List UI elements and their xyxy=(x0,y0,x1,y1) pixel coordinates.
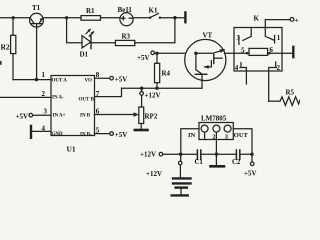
terminal +12V rail input xyxy=(159,152,163,156)
svg-text:VO: VO xyxy=(85,79,93,84)
svg-text:Be11: Be11 xyxy=(118,6,133,14)
svg-text:IN A-: IN A- xyxy=(52,96,64,101)
node T1 base junction xyxy=(35,78,38,81)
pin 8 wire xyxy=(95,77,110,79)
svg-text:VT: VT xyxy=(203,32,213,40)
node ground stem xyxy=(215,153,218,156)
resistor R3 xyxy=(115,40,134,45)
potentiometer RP2 xyxy=(139,107,144,129)
terminal +5V gate feeder xyxy=(151,51,155,55)
svg-text:R1: R1 xyxy=(86,7,95,15)
node R4 top xyxy=(155,52,158,55)
regulator pin circle 2 xyxy=(213,125,220,132)
terminal + top right xyxy=(290,18,294,22)
resistor R2 xyxy=(11,18,16,80)
svg-text:+12V: +12V xyxy=(140,151,156,159)
node R4 bottom xyxy=(155,87,158,90)
relay contact post 1 xyxy=(274,35,276,43)
relay K box xyxy=(234,28,282,72)
node coil left xyxy=(246,52,249,55)
svg-text:+5V: +5V xyxy=(16,112,29,120)
svg-text:2: 2 xyxy=(212,133,215,140)
relay contact post 3 xyxy=(238,36,240,44)
svg-text:+5V: +5V xyxy=(115,76,128,84)
wire R1 to bell xyxy=(101,17,121,19)
svg-text:IN: IN xyxy=(188,132,196,139)
regulator pin circle 1 xyxy=(201,125,208,132)
svg-text:K: K xyxy=(254,15,260,23)
resistor R5 zigzag xyxy=(280,97,300,106)
svg-text:RP2: RP2 xyxy=(145,112,158,120)
regulator pin1 stub xyxy=(204,132,206,139)
wire pin2 to R5 xyxy=(269,100,280,102)
svg-text:+5V: +5V xyxy=(115,131,128,139)
label V clipped left edge xyxy=(0,61,2,65)
svg-text:+5V: +5V xyxy=(244,170,257,178)
node D1 branch xyxy=(65,16,68,19)
wire branch down to R3 row xyxy=(135,18,175,43)
resistor R1 xyxy=(81,16,101,21)
wire R3 to D1 xyxy=(91,42,115,44)
svg-text:IN B-: IN B- xyxy=(80,133,92,138)
IC U1 box xyxy=(51,76,95,136)
wire coil to right terminal xyxy=(268,52,293,54)
svg-text:LM7805: LM7805 xyxy=(201,115,227,123)
wire VT collector to relay xyxy=(225,52,250,54)
svg-text:IN A+: IN A+ xyxy=(53,114,66,119)
wire +5V to VT gate xyxy=(155,52,185,54)
pin 5 wire xyxy=(95,133,110,135)
wire K coil tap to + terminal xyxy=(265,20,290,28)
transistor VT xyxy=(185,39,226,88)
svg-text:4: 4 xyxy=(235,64,239,72)
wire K1 to terminal xyxy=(161,17,184,19)
resistor R4 xyxy=(155,53,160,88)
svg-text:R3: R3 xyxy=(122,33,131,41)
relay contact pin2 xyxy=(269,62,277,101)
wire pin7 step to +12V rail xyxy=(95,88,122,96)
wire pin6 to RP2 wiper xyxy=(95,114,135,116)
terminal bar pin4 xyxy=(30,126,32,138)
svg-text:R2: R2 xyxy=(1,43,10,52)
svg-text:GND: GND xyxy=(52,132,64,137)
terminal bar right xyxy=(292,47,294,57)
regulator pin circle 3 xyxy=(224,125,231,132)
bell Bell xyxy=(120,13,133,26)
terminal +5V pin8 xyxy=(110,76,114,80)
pin 1 wire xyxy=(13,79,51,81)
svg-text:K1: K1 xyxy=(149,6,158,14)
wire T1 to node xyxy=(43,17,81,19)
terminal bar top xyxy=(184,12,186,22)
wire +12V rail xyxy=(122,87,203,89)
node junction R2 top xyxy=(12,16,15,19)
svg-text:R5: R5 xyxy=(286,89,295,97)
svg-text:OUT: OUT xyxy=(234,132,249,139)
node K1 branch xyxy=(173,16,176,19)
svg-text:+5V: +5V xyxy=(137,54,150,62)
regulator pin2 stub xyxy=(215,132,217,154)
terminal +5V bottom xyxy=(251,156,253,162)
ground below RP2 xyxy=(135,129,148,132)
svg-text:+12V: +12V xyxy=(145,92,161,100)
relay contact arm right from K xyxy=(265,28,273,41)
node coil right xyxy=(268,52,271,55)
pin 4 wire xyxy=(32,130,51,132)
transistor T1 xyxy=(30,13,44,79)
wire top rail left xyxy=(0,17,30,19)
node RP2/+12V stem xyxy=(140,87,143,90)
regulator LM7805 box xyxy=(199,123,233,140)
svg-text:+: + xyxy=(295,15,299,24)
wire bell to K1 xyxy=(133,17,150,19)
svg-text:2: 2 xyxy=(42,90,46,98)
svg-text:U1: U1 xyxy=(67,145,76,154)
wire bottom rail xyxy=(163,153,252,155)
switch K1 xyxy=(149,14,161,19)
terminal +12V mid xyxy=(140,88,144,107)
terminal +5V pin3 xyxy=(29,113,33,117)
terminal +5V pin5 xyxy=(110,132,114,136)
battery BT xyxy=(172,165,191,196)
svg-text:C1: C1 xyxy=(195,159,204,166)
svg-text:5: 5 xyxy=(241,47,245,55)
capacitor C1 xyxy=(197,150,200,159)
ground bottom xyxy=(215,154,217,165)
svg-text:D1: D1 xyxy=(80,51,89,59)
capacitor C2 xyxy=(236,150,239,159)
node +5V stem xyxy=(250,153,253,156)
svg-text:T1: T1 xyxy=(32,4,41,12)
svg-text:OUT A: OUT A xyxy=(52,79,68,84)
svg-text:IN B: IN B xyxy=(80,114,91,119)
svg-text:3: 3 xyxy=(44,108,48,116)
pin 3 wire xyxy=(33,114,51,116)
svg-text:R4: R4 xyxy=(162,70,171,78)
svg-text:1: 1 xyxy=(277,34,281,42)
diode D1 LED xyxy=(82,29,94,48)
wire D1 branch xyxy=(67,18,82,43)
svg-text:1: 1 xyxy=(42,71,46,79)
svg-text:C2: C2 xyxy=(232,159,241,166)
relay contact pin4 xyxy=(240,63,246,84)
svg-text:OUT B: OUT B xyxy=(79,98,95,103)
relay coil xyxy=(249,48,268,55)
wire IN from rail xyxy=(181,129,199,154)
svg-text:4: 4 xyxy=(42,125,46,133)
svg-text:+12V: +12V xyxy=(146,170,162,178)
relay contact arm left xyxy=(243,28,251,41)
terminal battery circle xyxy=(180,154,182,161)
wire OUT to rail xyxy=(233,129,252,154)
pin 2 wire xyxy=(0,96,51,98)
node battery branch xyxy=(179,153,182,156)
